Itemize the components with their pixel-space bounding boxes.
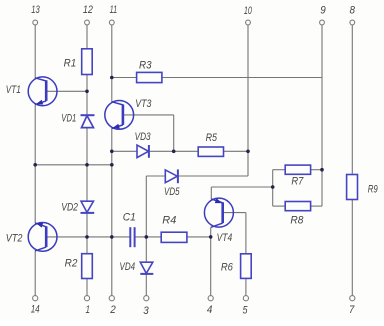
wire VT2 collector down to terminal 14	[34, 251, 36, 296]
wire terminal 13 to VT1 collector	[34, 25, 36, 78]
svg-text:4: 4	[207, 304, 213, 316]
terminal 2	[109, 296, 114, 301]
resistor R4	[161, 232, 187, 242]
terminal 5	[243, 296, 248, 301]
diode VD5	[165, 169, 178, 183]
wire VT2 base to C1 left plate	[46, 236, 130, 238]
wire VT4 emitter up from circle top	[210, 187, 212, 199]
resistor R6	[241, 254, 252, 279]
svg-text:VD1: VD1	[61, 113, 76, 125]
svg-text:7: 7	[349, 304, 355, 316]
resistor R7	[285, 165, 310, 174]
resistor R9	[347, 175, 358, 200]
svg-text:9: 9	[320, 4, 326, 16]
terminal 1	[84, 296, 89, 301]
svg-text:14: 14	[31, 304, 40, 316]
wire VD2 cathode down to R2 top	[86, 213, 88, 254]
wire terminal 11 to VT3 collector	[111, 25, 113, 102]
resistor R3	[137, 72, 162, 82]
svg-text:R5: R5	[206, 132, 218, 144]
svg-text:R3: R3	[139, 59, 152, 71]
svg-text:VD5: VD5	[164, 186, 180, 198]
wire horizontal bus at y165 from VT1-VT2 column to column 2	[35, 164, 112, 166]
wire VT3 base elbow vertical down to VD3-R5 line	[173, 115, 175, 151]
svg-text:8: 8	[350, 4, 356, 16]
wire VT4 emitter horizontal to R7-R8 left node	[211, 186, 272, 188]
wire R4 right to VT4 collector node	[187, 236, 211, 238]
wire R7 right to terminal 9 column	[311, 169, 322, 171]
wire VT1 base to node on R1-VD1 column	[46, 90, 87, 92]
junction VD3 line / column 2	[110, 150, 114, 154]
wire terminal 12 to R1 top	[86, 25, 88, 49]
wire R7-R8 right vertical	[321, 170, 323, 206]
wire VD3 cathode to R5 left	[149, 150, 198, 152]
svg-text:VT3: VT3	[135, 98, 152, 110]
transistor VT2	[28, 223, 57, 252]
junction VT1 base / R1-VD1 column	[85, 90, 89, 94]
diode VD3	[137, 145, 149, 158]
terminal 13	[33, 20, 38, 25]
wire R2 bottom to terminal 1	[86, 279, 88, 296]
capacitor C1	[130, 227, 134, 247]
wire R3 right to terminal 9 column	[162, 77, 322, 79]
svg-text:R6: R6	[221, 262, 234, 274]
svg-text:5: 5	[243, 305, 249, 317]
svg-text:12: 12	[83, 4, 93, 16]
svg-text:VT4: VT4	[217, 232, 233, 244]
terminal 10	[246, 20, 251, 25]
wire R8 right to right vertical	[311, 205, 322, 207]
terminal 14	[33, 296, 38, 301]
junction C1-R4 line / VD4 column	[145, 235, 149, 239]
wire VT4 collector node down to terminal 4	[210, 237, 212, 296]
junction R7-R8 right node / terminal 9 column	[320, 168, 324, 172]
diode VD1	[81, 115, 95, 127]
wire terminal 9 down to R7-R8 node	[321, 25, 323, 170]
junction y165 bus / column 12-1	[85, 163, 89, 167]
wire VD5 anode left to column 3	[146, 175, 165, 177]
wire node 2-column to VD3 anode	[112, 150, 137, 152]
junction R7-R8 left node	[271, 185, 275, 189]
terminal 9	[320, 20, 325, 25]
terminal 7	[350, 296, 355, 301]
wire R9 bottom to terminal 7	[351, 200, 353, 296]
terminal 8	[350, 20, 355, 25]
wire terminal-10 column down to VD5 level	[247, 151, 249, 176]
terminal 11	[109, 20, 114, 25]
junction y165 bus end / column 2	[110, 163, 114, 167]
svg-text:C1: C1	[123, 212, 136, 224]
wire terminal 10 down to R5 node	[247, 25, 249, 151]
resistor R5	[198, 147, 223, 156]
junction VT2 base line / column 2	[110, 235, 114, 239]
svg-text:VD2: VD2	[61, 202, 78, 214]
svg-text:3: 3	[143, 305, 149, 317]
svg-text:R7: R7	[291, 175, 304, 187]
wire VT1 emitter down to node at y165 and VT2 emitter	[34, 104, 36, 223]
wire VT4 collector up to node	[210, 227, 212, 237]
junction R3 left / column 11	[110, 76, 114, 80]
junction R5 right / terminal-10 column	[246, 150, 250, 154]
resistor R1	[82, 49, 93, 75]
wire R6 bottom to terminal 5	[245, 278, 247, 295]
wire R5 right to terminal-10 column	[224, 150, 249, 152]
resistor R8	[285, 202, 310, 211]
junction VT2 base line / column 12-1	[85, 235, 89, 239]
svg-text:13: 13	[31, 4, 40, 16]
wire VD4 cathode to terminal 3	[145, 274, 147, 296]
terminal 4	[208, 296, 213, 301]
transistor VT3	[105, 101, 134, 130]
svg-text:R1: R1	[64, 58, 77, 70]
diode VD4	[140, 262, 153, 274]
wire column 3 vertical from VD5 down to C1-R4 line	[145, 176, 147, 237]
svg-text:R2: R2	[65, 258, 78, 270]
junction R4 right / VT4 collector / terminal 4	[209, 235, 213, 239]
wire terminal 8 down to R9 top	[351, 25, 353, 174]
svg-text:2: 2	[109, 304, 115, 316]
junction y165 bus / column 13-14	[33, 163, 37, 167]
svg-text:VD3: VD3	[135, 131, 152, 143]
resistor R2	[82, 254, 93, 279]
svg-text:10: 10	[244, 5, 253, 17]
wire VT3 base elbow horizontal	[123, 114, 174, 116]
svg-text:VT2: VT2	[6, 232, 23, 244]
wire C1 right plate to R4 left	[135, 236, 161, 238]
svg-text:R9: R9	[368, 183, 378, 195]
svg-text:R4: R4	[162, 214, 176, 226]
diode VD2	[81, 201, 95, 213]
transistor VT1	[28, 77, 57, 106]
wire R7-R8 left vertical	[272, 170, 274, 206]
wire R3 left to column 11 node	[112, 77, 137, 79]
wire VT3 emitter down to terminal 2	[111, 128, 113, 295]
terminal 12	[85, 20, 90, 25]
wire node to VD4 top	[145, 237, 147, 262]
svg-text:1: 1	[85, 304, 90, 316]
wire R1 bottom to VD1 cathode (through VT1 base node)	[86, 75, 88, 116]
wire VT4 base horizontal to R6 column	[223, 212, 246, 214]
svg-text:VD4: VD4	[120, 261, 136, 273]
wire VD1 anode down to VD2 top	[86, 128, 88, 201]
wire left node to R8 left	[273, 205, 286, 207]
junction VT3 base branch / VD3-R5 line	[172, 150, 176, 154]
svg-text:11: 11	[110, 4, 118, 16]
svg-text:VT1: VT1	[6, 84, 21, 96]
wire R6 column vertical down to R6 top	[245, 213, 247, 254]
transistor VT4	[204, 198, 233, 227]
svg-text:R8: R8	[290, 215, 304, 227]
wire VD5 cathode to terminal-10 column	[178, 175, 248, 177]
terminal 3	[144, 296, 149, 301]
wire left node to R7 left	[273, 169, 286, 171]
